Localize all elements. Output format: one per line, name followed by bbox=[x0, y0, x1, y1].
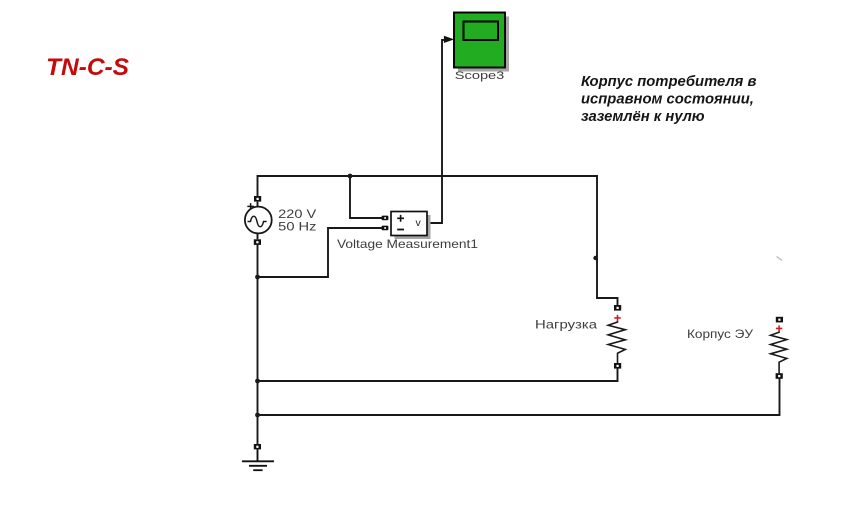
svg-text:TN-C-S: TN-C-S bbox=[46, 54, 130, 81]
svg-text:заземлён к нулю: заземлён к нулю bbox=[581, 109, 705, 125]
svg-text:v: v bbox=[416, 217, 422, 229]
svg-text:Корпус ЭУ: Корпус ЭУ bbox=[687, 328, 754, 341]
svg-text:Voltage Measurement1: Voltage Measurement1 bbox=[337, 237, 478, 251]
svg-text:исправном состоянии,: исправном состоянии, bbox=[581, 92, 754, 108]
svg-text:Нагрузка: Нагрузка bbox=[535, 318, 598, 331]
svg-text:Scope3: Scope3 bbox=[455, 70, 505, 82]
svg-text:Корпус потребителя в: Корпус потребителя в bbox=[581, 74, 757, 90]
svg-text:50 Hz: 50 Hz bbox=[278, 219, 316, 233]
